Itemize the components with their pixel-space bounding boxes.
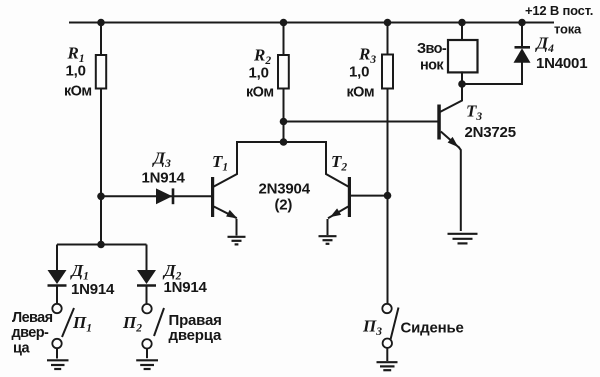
switch P3 lever (391, 308, 399, 340)
svg-text:+12 В пост.: +12 В пост. (525, 3, 593, 18)
wire: bus to D2 (146, 245, 148, 271)
ground (T1 emitter) (228, 237, 246, 245)
svg-text:Д1: Д1 (70, 261, 89, 283)
wire: +12V supply rail (70, 22, 553, 24)
node: rail/R3 junction (384, 19, 392, 27)
node: rail/D4 junction (518, 19, 526, 27)
svg-text:ца: ца (13, 341, 30, 357)
wire: R1 bottom to node A (100, 89, 102, 197)
transistor T3 bar (437, 105, 441, 140)
svg-text:дверца: дверца (169, 327, 222, 344)
wire: rail to R3 (387, 23, 389, 55)
wire: rail to D4 cathode (521, 23, 523, 48)
diode D2 cathode bar (137, 284, 156, 287)
diode D3 cathode bar (172, 188, 175, 204)
wire: T2 base node down to seat switch (387, 196, 389, 304)
wire: D4 anode down to node C level (521, 63, 523, 84)
svg-text:Сиденье: Сиденье (401, 320, 464, 337)
wire: D1 to switch P1 (56, 286, 58, 304)
svg-text:T2: T2 (331, 152, 347, 174)
svg-text:Левая: Левая (12, 310, 53, 326)
node: rail/bell junction (458, 19, 466, 27)
node B: R2/T3 base junction (280, 118, 288, 126)
svg-text:1N914: 1N914 (164, 279, 208, 296)
svg-text:Д3: Д3 (152, 149, 172, 171)
bell (Звонок) box (448, 40, 478, 72)
node: rail/R2 junction (280, 19, 288, 27)
ground (P2) (136, 360, 158, 369)
svg-text:1N914: 1N914 (142, 170, 186, 187)
svg-text:T1: T1 (212, 152, 228, 174)
svg-text:кОм: кОм (246, 85, 273, 101)
wire: rail to bell (461, 23, 463, 41)
resistor R1 body (96, 55, 106, 89)
node: door bus junction (97, 241, 105, 249)
ground (P1) (47, 360, 69, 369)
wire: T1 emitter to ground (236, 219, 238, 236)
diode D4 triangle (pointing up) (514, 48, 531, 63)
wire: door diode bus (57, 244, 147, 246)
ground (T3 emitter) (448, 234, 478, 244)
node C: bell/D4/T3 collector junction (458, 80, 466, 88)
svg-text:нок: нок (420, 58, 444, 74)
diode D4 (1N4001) cathode bar (515, 46, 531, 49)
wire: T2 emitter to ground (327, 219, 329, 235)
svg-text:1,0: 1,0 (349, 64, 369, 81)
svg-text:П3: П3 (362, 317, 382, 339)
svg-text:1,0: 1,0 (66, 63, 86, 80)
wire: T1 base line from node A (101, 195, 211, 197)
ground (T2 emitter) (319, 236, 337, 244)
wire: P3 to ground (386, 348, 388, 361)
transistor T3 emitter with arrow (441, 132, 459, 148)
wire: node A down to door-diode bus (100, 196, 102, 244)
transistor T1 emitter with arrow (214, 207, 237, 219)
transistor T1 bar (211, 177, 214, 217)
svg-text:Зво-: Зво- (417, 41, 447, 57)
svg-text:тока: тока (554, 22, 582, 37)
wire: bell bottom to node C (461, 72, 463, 84)
wire: T3 collector to node C (441, 84, 462, 112)
svg-text:кОм: кОм (347, 85, 374, 101)
svg-text:2N3725: 2N3725 (465, 124, 516, 141)
switch P2 upper contact (142, 304, 151, 313)
resistor R2 body (278, 55, 289, 89)
wire: T3 emitter down lead (459, 148, 461, 231)
transistor T2 emitter with arrow (328, 207, 348, 219)
wire: T2 collector (326, 142, 348, 187)
node A: R1/D3 base junction (97, 193, 105, 201)
switch P1 upper contact (52, 304, 61, 313)
switch P2 lower contact (142, 339, 151, 348)
wire: rail to R1 (100, 23, 102, 56)
wire: node C to D4 anode (462, 83, 522, 85)
wire: T1/T2 collector rail (237, 141, 326, 143)
svg-text:1,0: 1,0 (249, 65, 269, 82)
diode D1 cathode bar (48, 284, 67, 287)
wire: T2 base to R3 column (351, 195, 388, 197)
wire: R2 bottom through node B to collector rail (283, 89, 285, 143)
wire: T1 collector (214, 142, 237, 187)
resistor R3 body (382, 55, 393, 89)
ground (P3) (377, 362, 398, 370)
switch P3 upper contact (382, 304, 391, 313)
node: rail/R1 junction (97, 19, 105, 27)
svg-text:Д4: Д4 (535, 34, 555, 56)
diode D1 (1N914) triangle pointing down (48, 270, 67, 284)
svg-text:двер-: двер- (12, 325, 49, 341)
wire: P1 to ground (56, 348, 58, 358)
wire: bus to D1 (56, 245, 58, 271)
diode D3 (1N914) triangle (156, 188, 172, 204)
switch P1 lever (62, 308, 74, 337)
switch P3 lower contact (383, 339, 392, 348)
svg-text:кОм: кОм (64, 83, 91, 99)
svg-text:П2: П2 (122, 313, 142, 335)
wire: rail to R2 (283, 23, 285, 56)
svg-text:1N4001: 1N4001 (536, 55, 587, 72)
svg-text:П1: П1 (72, 313, 92, 335)
switch P2 lever (154, 308, 164, 336)
node: T2 base/R3 junction (384, 192, 392, 200)
switch P1 lower contact (52, 339, 61, 348)
wire: R3 bottom down to T2 base node (crosses T3 base wire) (387, 89, 389, 196)
node: collector rail junction (280, 138, 288, 146)
svg-text:T3: T3 (466, 102, 482, 124)
svg-text:(2): (2) (275, 197, 293, 214)
wire: P2 to ground (146, 349, 148, 359)
diode D2 (1N914) triangle pointing down (137, 270, 156, 284)
svg-text:2N3904: 2N3904 (259, 181, 311, 198)
svg-text:1N914: 1N914 (71, 281, 115, 298)
transistor T2 bar (348, 177, 351, 217)
wire: D2 to switch P2 (146, 286, 148, 304)
wire: T3 base line from node B (284, 121, 438, 123)
